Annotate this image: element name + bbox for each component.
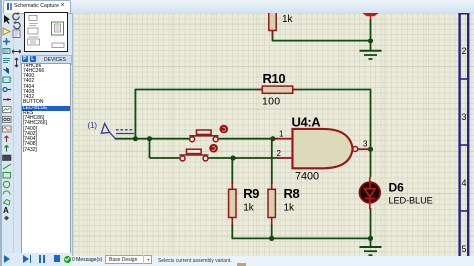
svg-text:A: A — [3, 206, 9, 215]
